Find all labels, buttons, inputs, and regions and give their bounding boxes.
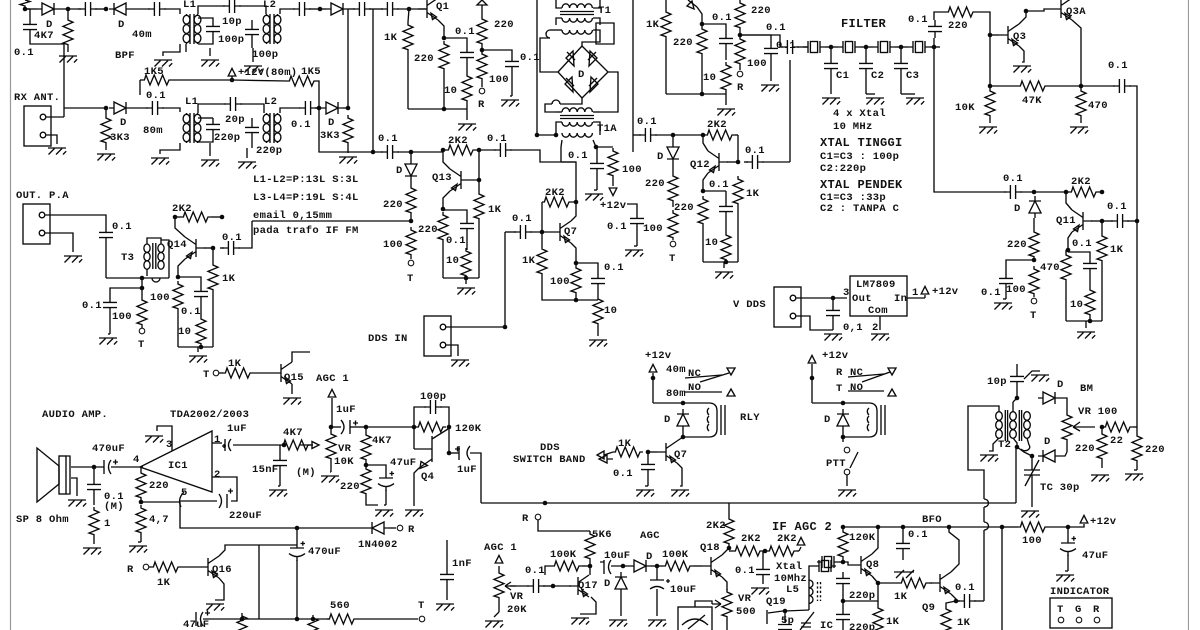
transistor Q3A (1052, 0, 1072, 20)
capacitor 0.1 pd in (928, 20, 942, 38)
arrow IF AGC 2 (797, 537, 805, 545)
wire relay2 rail (811, 364, 813, 403)
trimmer TC 30p (1024, 460, 1040, 486)
wire DDS pin2 gnd (445, 345, 458, 356)
wire ring bottom (560, 98, 582, 104)
wire (348, 8, 355, 10)
terminal PTT top (844, 447, 850, 453)
svg-text:1K: 1K (618, 438, 632, 450)
T3 primary loop (147, 238, 169, 278)
resistor 47K (1018, 81, 1048, 91)
wire T1A out node (593, 140, 596, 147)
junction 40m out (318, 7, 323, 12)
ground 10p (1031, 375, 1049, 382)
wire 80m row input (64, 107, 106, 109)
junction (23, 7, 28, 12)
svg-text:L1-L2=P:13L S:3L: L1-L2=P:13L S:3L (253, 174, 359, 186)
resistor 100 +12v (1018, 522, 1048, 532)
junction 2K2 left (701, 133, 706, 138)
wire Q17 base (553, 585, 571, 587)
capacitor 220p 80m-2 (245, 121, 259, 139)
svg-text:220uF: 220uF (229, 510, 262, 522)
wire meter (695, 601, 712, 607)
terminal PTT bottom (844, 469, 850, 475)
capacitor 0,1 VDDS (826, 304, 840, 322)
wire VDDS pin1 (796, 297, 847, 299)
diode D agc3 up (615, 572, 627, 594)
capacitor 10uF agc (600, 560, 611, 574)
arrow switch band (599, 455, 613, 463)
svg-text:4: 4 (133, 454, 140, 466)
resistor 1K5 (142, 75, 172, 85)
resistor 2K2 q18c (724, 516, 734, 546)
svg-text:IF AGC 2: IF AGC 2 (772, 520, 832, 534)
ground C1 (822, 98, 840, 105)
resistor 100 T1A out (608, 148, 618, 178)
switch PTT blade (850, 452, 858, 468)
ground Q7r base (636, 490, 654, 497)
svg-text:1K: 1K (957, 617, 971, 629)
wire to Q3A base (1026, 9, 1052, 11)
ground 1 audio (83, 548, 101, 555)
resistor 1K Q11 (1097, 233, 1107, 263)
svg-text:+12v: +12v (600, 200, 627, 212)
svg-text:47K: 47K (1022, 95, 1042, 107)
transistor Q4 (414, 429, 448, 469)
power +12 top arrow (477, 0, 487, 5)
svg-text:3K3: 3K3 (110, 132, 130, 144)
wire Q14 emitter (178, 259, 185, 277)
T3 winding hook (152, 278, 160, 282)
wire rx/tx rail drop (347, 9, 349, 107)
ground VR20K (485, 621, 503, 628)
svg-text:220: 220 (645, 178, 665, 190)
connector RX ANT (24, 106, 51, 146)
wire hook to ring left (540, 38, 558, 72)
resistor 2K2 Q11 (1069, 187, 1099, 197)
transistor Q17 (569, 575, 589, 597)
ground 47uF (1056, 575, 1074, 582)
transformer T1A core (560, 116, 594, 119)
junction Q13 gnd net (464, 276, 469, 281)
resistor 100 Q7 em (571, 265, 581, 295)
ground L1 (154, 60, 172, 67)
transistor Q18 (702, 555, 722, 577)
svg-text:1uF: 1uF (227, 423, 247, 435)
crystal X4 (908, 41, 930, 53)
svg-text:100: 100 (150, 292, 170, 304)
ground 0.1 bfo slashes (894, 570, 914, 578)
terminal O D6 (670, 241, 676, 247)
svg-text:10uF: 10uF (670, 584, 696, 596)
svg-text:100: 100 (383, 239, 403, 251)
junction col2 out (738, 33, 743, 38)
svg-text:40m: 40m (666, 364, 686, 376)
capacitor 0.1 Q11 out (1111, 214, 1129, 228)
svg-text:0.1: 0.1 (378, 133, 398, 145)
junction rail (199, 345, 204, 350)
svg-text:T: T (407, 273, 414, 285)
svg-text:100p: 100p (218, 34, 244, 46)
capacitor bus4 (381, 2, 399, 16)
svg-text:OUT. P.A: OUT. P.A (16, 190, 69, 202)
resistor 100 Q14 emitter (173, 281, 183, 311)
svg-text:Out: Out (852, 293, 872, 305)
svg-text:1K: 1K (1110, 244, 1124, 256)
resistor 220 Q12 em (698, 196, 708, 226)
wire Q4 emitter down (414, 468, 419, 506)
wire DDS vertical riser (504, 232, 506, 327)
resistor 120K bfo (838, 529, 848, 559)
arrow AGC 1 (328, 389, 336, 397)
transformer T1 winding 1 (562, 4, 592, 8)
ground Q13 (457, 288, 475, 295)
svg-text:100: 100 (550, 276, 570, 288)
potentiometer VR 100 (1062, 412, 1072, 442)
svg-text:10p: 10p (987, 376, 1007, 388)
junction Q13 base (477, 178, 482, 183)
ground 220 BM (1091, 475, 1109, 482)
wire to L1 40m (164, 9, 180, 14)
ring diode 3 (565, 77, 574, 92)
capacitor 220p 80m-1 (206, 118, 220, 136)
ground T2 (980, 455, 998, 462)
capacitor 1uF AGC horizontal (341, 420, 358, 434)
relay coil 1 (683, 403, 725, 437)
wire top input bus (25, 8, 37, 10)
svg-text:2K2: 2K2 (545, 187, 565, 199)
ground C3 (906, 98, 924, 105)
resistor 1K Q14 (208, 262, 218, 292)
svg-text:100: 100 (489, 74, 509, 86)
wire right rail down (1136, 96, 1138, 221)
ring diode 2 (588, 51, 597, 66)
svg-text:T: T (1057, 604, 1064, 616)
ground 80m mid (201, 160, 219, 167)
wire Q9 collector (949, 527, 959, 572)
terminal R ind (1094, 617, 1100, 623)
wire Q7r base (648, 451, 657, 453)
junction diode node (1032, 190, 1037, 195)
svg-text:1nF: 1nF (452, 558, 472, 570)
svg-text:C2: C2 (871, 70, 884, 82)
diode 1N4002 (367, 522, 389, 534)
resistor 1K q9 base (899, 578, 929, 588)
wire 10p top stub (1016, 364, 1018, 370)
svg-text:220: 220 (414, 53, 434, 65)
junction q18 coll (727, 546, 732, 551)
diode D5 vertical (405, 159, 417, 181)
svg-text:220p: 220p (214, 132, 240, 144)
wire main TX bus (481, 502, 1016, 504)
junction T1A bottom rail (535, 133, 540, 138)
junction 4K7 top (364, 425, 369, 430)
resistor 1K5 b (287, 76, 317, 86)
svg-text:80m: 80m (666, 388, 686, 400)
transistor Q8 (852, 554, 872, 576)
resistor 100 under D5 (406, 227, 416, 257)
svg-text:0,1: 0,1 (843, 322, 863, 334)
svg-text:2K2: 2K2 (172, 203, 192, 215)
VR500 wiper (712, 600, 721, 608)
svg-text:2K2: 2K2 (1071, 176, 1091, 188)
capacitor 0.1 bfo (896, 537, 910, 555)
coil hook arc 2 (552, 100, 560, 104)
svg-text:22: 22 (1110, 435, 1123, 447)
svg-text:VR: VR (738, 593, 752, 605)
svg-text:(M): (M) (296, 467, 316, 479)
svg-text:T: T (836, 383, 843, 395)
svg-text:email 0,15mm: email 0,15mm (253, 210, 332, 222)
switch arrow down (727, 368, 735, 375)
wire BM2 out (1060, 452, 1067, 456)
svg-text:0.1: 0.1 (613, 468, 633, 480)
wire T1A leads (556, 111, 562, 113)
svg-text:0.1: 0.1 (525, 565, 545, 577)
svg-text:SP 8 Ohm: SP 8 Ohm (16, 514, 69, 526)
resistor 220 col2 (697, 26, 707, 56)
junction bfo line2 (1000, 525, 1005, 530)
svg-text:Q9: Q9 (922, 602, 935, 614)
capacitor 100p bridge (424, 400, 442, 414)
wire Q15 collector (292, 352, 310, 362)
capacitor 0.1 pd out (1113, 79, 1131, 93)
wire Q9 emitter (951, 594, 956, 601)
junction 4K7/15nF (282, 443, 287, 448)
wire long vertical rail (632, 0, 634, 152)
svg-text:TDA2002/2003: TDA2002/2003 (170, 409, 249, 421)
transistor Q1 (418, 0, 438, 20)
junction rail (724, 260, 729, 265)
svg-text:T: T (138, 339, 145, 351)
svg-text:220: 220 (1145, 444, 1165, 456)
wire Q8 collector (872, 527, 878, 554)
wire T2 left loop to coupling rail (968, 406, 999, 499)
svg-text:10: 10 (604, 305, 617, 317)
ground TC (1021, 511, 1039, 518)
resistor 1K Q7 base (537, 246, 547, 276)
wire T1A out left leg (561, 140, 562, 162)
svg-text:1: 1 (912, 287, 919, 299)
svg-text:0.1: 0.1 (1003, 173, 1023, 185)
wire (77, 8, 81, 10)
transformer T1A winding 1 (562, 108, 592, 112)
junction Q3 base (988, 33, 993, 38)
diode D relay1 (677, 409, 689, 431)
resistor 1 audio (89, 507, 99, 537)
junction 2K2 right (1100, 190, 1105, 195)
svg-text:IC: IC (820, 620, 834, 630)
svg-text:Q3A: Q3A (1066, 6, 1086, 18)
resistor 1K Q13 (474, 191, 484, 221)
svg-text:RX ANT.: RX ANT. (14, 92, 60, 104)
svg-text:1K: 1K (746, 188, 760, 200)
svg-text:+12v: +12v (822, 350, 849, 362)
svg-text:0.1: 0.1 (455, 26, 475, 38)
capacitor 20p bridge (224, 97, 242, 111)
wire L1 secondary gnd (185, 44, 187, 52)
wire VDDS pin2 (796, 316, 833, 330)
wire Q13 gnd rail (443, 277, 479, 279)
svg-text:1K: 1K (384, 32, 398, 44)
svg-text:INDICATOR: INDICATOR (1050, 586, 1110, 598)
ground DDS IN (451, 360, 469, 367)
switch arrow down 2 (888, 368, 896, 375)
svg-text:+12v: +12v (1090, 516, 1117, 528)
svg-text:10: 10 (703, 72, 716, 84)
transistor Q9 (931, 572, 951, 594)
wire Q3A collector up (1071, 0, 1073, 1)
ground C2 (866, 98, 884, 105)
svg-text:120K: 120K (849, 532, 876, 544)
diode D 80m out (321, 102, 343, 114)
capacitor 0.1 col2 out (764, 42, 778, 60)
svg-text:BM: BM (1080, 383, 1093, 395)
svg-text:10: 10 (446, 255, 459, 267)
junction after diode (655, 564, 660, 569)
svg-text:NO: NO (850, 382, 863, 394)
svg-text:120K: 120K (455, 423, 482, 435)
transistor Q7 relay driver (657, 441, 677, 463)
capacitor 0.1 top-left (23, 18, 37, 36)
capacitor 0.1 80m (146, 101, 164, 115)
junction VR10K top (329, 425, 334, 430)
junction Q14 base (211, 246, 216, 251)
junction T3 bottom (140, 276, 145, 281)
svg-text:100: 100 (1006, 284, 1026, 296)
ground Q12 (715, 272, 733, 279)
resistor 220 pd (946, 7, 976, 17)
junction 560 bus (311, 617, 316, 622)
wire em node right (703, 190, 726, 192)
junction BM2 node (1030, 454, 1035, 459)
ground 220 BM r (1125, 474, 1143, 481)
svg-text:R: R (127, 564, 134, 576)
svg-text:pada trafo IF FM: pada trafo IF FM (253, 225, 359, 237)
capacitor 47uF bfo (1060, 536, 1076, 556)
capacitor 100p (L2) (245, 23, 259, 41)
resistor 220 col2 top (735, 0, 745, 30)
junction q9 em (954, 599, 959, 604)
capacitor 0.1 Q11 in (1004, 185, 1022, 199)
wire 1uF out to bus (470, 453, 481, 503)
svg-text:L2: L2 (264, 96, 277, 108)
wire xtal left riser (809, 566, 814, 610)
ground agc3 (609, 620, 627, 627)
svg-text:D: D (1044, 436, 1051, 448)
junction bfo em (876, 581, 881, 586)
svg-text:T3: T3 (121, 252, 134, 264)
vertical wire left col (258, 545, 260, 619)
wire RX ANT pin1 (46, 116, 64, 118)
wire Q16 collector (219, 545, 297, 556)
svg-text:15nF: 15nF (252, 464, 278, 476)
ground Q16 em (206, 604, 224, 611)
wire fb node to pin5 node (141, 501, 180, 503)
diode D1 (37, 3, 59, 15)
svg-text:Q18: Q18 (700, 542, 720, 554)
arrow +12v relay2 (808, 355, 816, 363)
svg-text:D: D (118, 19, 125, 31)
svg-text:Q11: Q11 (1056, 215, 1076, 227)
svg-text:XTAL TINGGI: XTAL TINGGI (820, 136, 903, 150)
svg-text:0.1: 0.1 (735, 565, 755, 577)
diode D2 (to BPF) (109, 3, 131, 15)
svg-text:0.1: 0.1 (908, 14, 928, 26)
resistor 100K agc h (552, 561, 582, 571)
capacitor 220uF fb (219, 489, 233, 509)
resistor 2K2 h2 (767, 546, 797, 556)
ground pin3 (145, 436, 163, 443)
svg-text:D: D (664, 414, 671, 426)
svg-text:AGC 1: AGC 1 (484, 542, 517, 554)
svg-text:D: D (120, 117, 127, 129)
svg-text:1N4002: 1N4002 (358, 539, 398, 551)
switch NC line 2 (848, 374, 884, 377)
capacitor bus3 (353, 2, 371, 16)
arrow left (597, 451, 604, 459)
wire Q1 bottom rail (408, 108, 467, 110)
transistor Q19 (767, 610, 783, 624)
svg-text:80m: 80m (143, 125, 163, 137)
svg-text:0.1: 0.1 (222, 232, 242, 244)
wire filter bus (797, 46, 808, 48)
junction node (104, 7, 109, 12)
resistor 120K Q4 (416, 422, 446, 432)
ground col2 out (761, 85, 779, 92)
capacitor 0.1 emitter (194, 285, 208, 303)
resistor 4K7 (63, 17, 73, 47)
terminal O (408, 260, 414, 266)
svg-text:R: R (408, 524, 415, 536)
svg-text:0.1: 0.1 (604, 262, 624, 274)
svg-text:TC 30p: TC 30p (1040, 482, 1080, 494)
junction fb (139, 500, 144, 505)
svg-text:40m: 40m (132, 29, 152, 41)
arrow +12v relay1 (649, 364, 657, 372)
wire T2 center top to BM (1013, 398, 1017, 402)
capacitor 1uF Q4 out (455, 446, 470, 460)
terminal T (139, 328, 145, 334)
svg-text:220: 220 (383, 199, 403, 211)
svg-text:SWITCH BAND: SWITCH BAND (513, 454, 586, 466)
svg-text:0.1: 0.1 (568, 150, 588, 162)
switch NO line 2 (848, 390, 884, 392)
capacitor 0.1 Q13 em (460, 217, 474, 235)
resistor 220 under D5 (406, 185, 416, 215)
ground +12v col (625, 250, 643, 257)
wire pin3 to gnd (157, 426, 172, 451)
svg-text:1: 1 (104, 518, 111, 530)
svg-text:220: 220 (948, 20, 968, 32)
svg-text:PTT: PTT (826, 458, 846, 470)
svg-text:47uF: 47uF (183, 619, 209, 630)
svg-text:1K: 1K (222, 273, 236, 285)
resistor 10 Q13 (461, 248, 471, 278)
capacitor 10p (1010, 370, 1024, 388)
wire RX ANT pin2 to ground (46, 135, 57, 144)
resistor 470 (1076, 88, 1086, 118)
resistor 1K col2 (661, 9, 671, 39)
ground speaker (68, 500, 86, 507)
ground Q1 bottom (458, 124, 476, 131)
resistor 470 Q11 (1061, 252, 1071, 282)
ground Q7 mid (589, 340, 607, 347)
capacitor C3 (894, 57, 908, 75)
junction BFO a (841, 525, 846, 530)
coil L5 (809, 580, 813, 603)
svg-text:(M): (M) (104, 501, 124, 513)
